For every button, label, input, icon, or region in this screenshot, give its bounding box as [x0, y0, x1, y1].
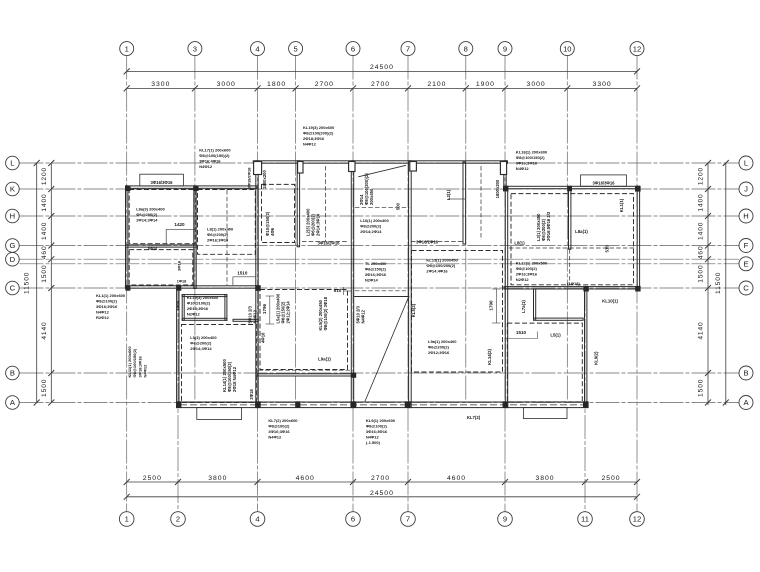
beam dashed right room F-line	[509, 247, 636, 249]
grid bubble E right	[739, 257, 753, 271]
beam dashed stair lower	[355, 290, 406, 292]
svg-text:8: 8	[464, 44, 468, 53]
svg-text:4: 4	[255, 44, 259, 53]
beam dashed room 4-6 middle	[260, 290, 348, 370]
beam dashed rooms 7-9 middle	[412, 251, 503, 373]
beam dashed room 8-9 divider	[480, 166, 482, 240]
grid axis 11 vertical (bottom)	[584, 287, 586, 512]
grid bubble C right	[739, 281, 753, 295]
svg-text:2Φ12;3Φ16: 2Φ12;3Φ16	[428, 350, 450, 355]
beam dashed big right room	[511, 194, 634, 285]
svg-text:N4Φ12: N4Φ12	[199, 164, 213, 169]
wall axis4 vertical	[256, 161, 258, 408]
column blobs at wall junctions	[126, 186, 131, 192]
svg-text:2700: 2700	[315, 81, 334, 88]
svg-text:L2(1): L2(1)	[446, 189, 451, 200]
right dim ticks	[705, 160, 711, 166]
svg-text:L9a(1) 200x400: L9a(1) 200x400	[428, 339, 457, 344]
svg-text:1400: 1400	[698, 193, 705, 211]
svg-text:1400: 1400	[698, 222, 705, 240]
grid bubble B right	[739, 366, 753, 380]
svg-text:N4Φ12: N4Φ12	[253, 309, 258, 323]
svg-text:3Φ16;3Φ16: 3Φ16;3Φ16	[366, 429, 388, 434]
grid bubble 6 top	[346, 42, 360, 56]
svg-text:KL5(2): KL5(2)	[411, 303, 416, 317]
svg-text:4: 4	[255, 515, 259, 524]
svg-text:3Φ18/2Φ18: 3Φ18/2Φ18	[246, 167, 251, 189]
svg-text:B: B	[10, 369, 15, 378]
svg-text:2Φ18 N4Φ12: 2Φ18 N4Φ12	[232, 366, 237, 392]
svg-text:3Φ18: 3Φ18	[249, 389, 254, 400]
svg-text:1510: 1510	[237, 271, 248, 276]
svg-text:Φ6@200(2): Φ6@200(2)	[311, 213, 316, 236]
svg-text:Φ8@100/150(2): Φ8@100/150(2)	[227, 361, 232, 392]
wall axis8 partition	[463, 162, 466, 244]
svg-text:3800: 3800	[208, 475, 227, 482]
wall right edge lower axis11	[585, 287, 587, 408]
svg-text:3Φ16/2Φ16: 3Φ16/2Φ16	[317, 241, 340, 246]
left segment dim line	[50, 163, 52, 403]
bottom dim ticks	[124, 479, 130, 485]
svg-text:3Φ16;3Φ16: 3Φ16;3Φ16	[96, 304, 118, 309]
beam dashed room 4-5	[262, 184, 295, 242]
svg-text:Φ6@200(2): Φ6@200(2)	[428, 345, 450, 350]
svg-text:Φ10@100(2): Φ10@100(2)	[187, 300, 211, 305]
wall left outer axis1	[126, 186, 128, 289]
svg-text:510: 510	[334, 288, 342, 293]
wall along C left	[125, 286, 258, 288]
grid bubble L right	[739, 156, 753, 170]
svg-text:Φ6@200(2): Φ6@200(2)	[136, 212, 158, 217]
grid axis C horizontal	[20, 287, 740, 289]
wall along C right	[504, 287, 640, 289]
svg-text:Φ6@200(2): Φ6@200(2)	[190, 341, 212, 346]
svg-text:N4Φ12: N4Φ12	[268, 434, 282, 439]
grid bubble 7 bottom	[401, 512, 416, 527]
svg-text:3300: 3300	[151, 81, 170, 88]
grid bubble 9 top	[498, 42, 512, 56]
wall axis10 divider upper	[569, 189, 571, 250]
svg-text:H: H	[743, 212, 748, 221]
svg-text:3Φ16;3Φ16: 3Φ16;3Φ16	[516, 161, 538, 166]
top segment dim line	[127, 87, 637, 89]
grid bubble 2 bottom	[171, 512, 186, 527]
svg-text:L: L	[10, 159, 14, 168]
svg-text:4140: 4140	[41, 321, 48, 339]
svg-text:(1Φ18): (1Φ18)	[567, 281, 580, 286]
svg-text:2500: 2500	[143, 475, 162, 482]
svg-text:L8(1): L8(1)	[514, 241, 525, 246]
svg-text:2Φ16;3Φ16: 2Φ16;3Φ16	[516, 271, 538, 276]
svg-text:Φ8@100(2): Φ8@100(2)	[366, 423, 388, 428]
svg-text:1500: 1500	[41, 264, 48, 282]
svg-text:2Φ14;2Φ14: 2Φ14;2Φ14	[360, 229, 382, 234]
svg-text:N4Φ12: N4Φ12	[303, 141, 317, 146]
svg-text:B: B	[743, 369, 748, 378]
svg-text:1400: 1400	[41, 193, 48, 211]
svg-text:24500: 24500	[370, 64, 394, 71]
svg-text:2Φ14;3Φ14: 2Φ14;3Φ14	[316, 213, 321, 236]
grid axis 8 vertical (top)	[465, 56, 467, 404]
svg-text:Φ8@100(2): Φ8@100(2)	[516, 266, 538, 271]
svg-text:F: F	[744, 241, 749, 250]
balcony top-right	[581, 175, 627, 186]
wall axis2 vertical	[177, 286, 179, 408]
svg-text:6: 6	[351, 44, 355, 53]
svg-text:2100: 2100	[427, 81, 446, 88]
svg-text:KL1(1) 200x600: KL1(1) 200x600	[96, 293, 126, 298]
grid bubble 12 top	[630, 42, 644, 56]
svg-text:4600: 4600	[447, 475, 466, 482]
grid bubble 3 top	[188, 42, 202, 56]
wall along G left	[126, 245, 197, 247]
grid bubble 12 bottom	[630, 512, 645, 527]
grid axis L horizontal	[20, 162, 740, 164]
svg-text:Φ10@150(2): Φ10@150(2)	[265, 211, 270, 236]
svg-text:1800x200: 1800x200	[495, 179, 500, 198]
svg-text:K: K	[10, 185, 15, 194]
stair landing line	[354, 296, 409, 298]
beam dashed axis10 divider lower	[569, 249, 571, 284]
beam dashed lower right room	[507, 323, 582, 402]
svg-text:Φ8@100(2): Φ8@100(2)	[268, 423, 290, 428]
svg-text:C: C	[743, 284, 749, 293]
svg-text:2Φ14;3Φ14: 2Φ14;3Φ14	[190, 346, 212, 351]
beam dashed room 1-3 upper	[129, 190, 195, 244]
grid axis 3 vertical (top)	[194, 56, 196, 404]
grid bubble B left	[6, 366, 20, 380]
grid bubble 9 bottom	[498, 512, 513, 527]
svg-text:24500: 24500	[370, 490, 394, 497]
svg-text:Φ8@100/200(2): Φ8@100/200(2)	[426, 263, 455, 268]
grid bubble 4 bottom	[250, 512, 265, 527]
grid axis B horizontal	[20, 372, 740, 374]
svg-text:1500: 1500	[698, 379, 705, 397]
svg-text:Φ8@100(200)(2): Φ8@100(200)(2)	[364, 173, 369, 205]
outlined column boxes on L wall	[254, 162, 262, 175]
svg-text:1500: 1500	[698, 264, 705, 282]
svg-text:5: 5	[293, 44, 297, 53]
svg-text:6: 6	[351, 515, 355, 524]
svg-text:1Φ18: 1Φ18	[175, 300, 180, 311]
svg-text:3Φ16/2Φ16: 3Φ16/2Φ16	[416, 240, 439, 245]
wall along B middle	[257, 374, 354, 376]
grid bubble 10 top	[560, 42, 574, 56]
svg-text:1: 1	[125, 44, 129, 53]
svg-text:Φ8@200(2): Φ8@200(2)	[360, 224, 382, 229]
svg-text:3Φ18: 3Φ18	[177, 260, 182, 271]
wall axis5 vertical	[297, 161, 299, 247]
svg-text:KL5(2) 200x450: KL5(2) 200x450	[318, 299, 323, 330]
svg-text:3: 3	[193, 44, 197, 53]
svg-text:L8a(3) 200x400: L8a(3) 200x400	[136, 207, 165, 212]
svg-text:(-1.500): (-1.500)	[366, 440, 381, 445]
svg-text:KL14(1) 200x500: KL14(1) 200x500	[222, 359, 227, 392]
grid bubble H left	[6, 209, 20, 223]
svg-text:KL7(2): KL7(2)	[467, 415, 481, 420]
svg-text:KL14(2): KL14(2)	[487, 349, 492, 365]
svg-text:5Φ10 2/3: 5Φ10 2/3	[248, 305, 253, 323]
svg-text:1200: 1200	[698, 167, 705, 185]
svg-text:1796: 1796	[262, 303, 267, 314]
left overall dim line	[36, 163, 38, 403]
grid bubble L left	[6, 156, 20, 170]
svg-text:3000: 3000	[217, 81, 236, 88]
wall axis6 vertical	[351, 161, 353, 408]
svg-text:KL12(1) 200x500: KL12(1) 200x500	[516, 260, 548, 265]
svg-text:1790: 1790	[489, 300, 494, 311]
wall interior y320 left	[233, 319, 258, 321]
svg-text:Φ8@100(2) 3Φ18: Φ8@100(2) 3Φ18	[323, 296, 328, 330]
svg-text:N4Φ12: N4Φ12	[143, 364, 148, 378]
grid axis 6 vertical	[352, 56, 354, 512]
svg-text:N4Φ12: N4Φ12	[366, 434, 380, 439]
balcony top-left	[140, 174, 184, 186]
wall top-left along K	[126, 186, 258, 188]
grid axis 2 vertical (bottom)	[177, 287, 179, 512]
svg-text:1900: 1900	[476, 81, 495, 88]
svg-text:KL9(2): KL9(2)	[594, 351, 599, 365]
beam dashed along A	[180, 404, 585, 406]
balcony bottom-left	[197, 408, 242, 420]
svg-text:L3(1) 200x450: L3(1) 200x450	[536, 213, 541, 241]
svg-text:D: D	[10, 255, 16, 264]
balcony bottom-right	[524, 408, 568, 419]
svg-text:2Φ18;3Φ16: 2Φ18;3Φ16	[303, 136, 325, 141]
svg-text:510: 510	[604, 245, 609, 253]
svg-text:1: 1	[125, 515, 129, 524]
grid bubble 6 bottom	[346, 512, 361, 527]
svg-text:2Φ12;2Φ14: 2Φ12;2Φ14	[286, 301, 291, 324]
svg-text:1500: 1500	[41, 379, 48, 397]
grid bubble H right	[739, 209, 753, 223]
bottom segment dim line	[127, 481, 637, 483]
svg-text:L5a(1) 200x400: L5a(1) 200x400	[276, 293, 281, 323]
svg-text:12: 12	[633, 515, 641, 524]
svg-text:1510: 1510	[516, 330, 527, 335]
svg-text:KL11(1) 200x600: KL11(1) 200x600	[127, 346, 132, 378]
svg-text:3Φ16/3Φ16: 3Φ16/3Φ16	[150, 180, 173, 185]
stair flight diagonal lower	[365, 298, 408, 401]
svg-text:L5(3) 200x400: L5(3) 200x400	[190, 335, 217, 340]
bottom overall dim line	[127, 496, 637, 498]
beam dashed room 5-6 bottom	[302, 241, 348, 243]
svg-text:E: E	[743, 260, 748, 269]
svg-text:N4Φ12: N4Φ12	[361, 309, 366, 323]
grid bubble 11 bottom	[578, 512, 593, 527]
grid axis A horizontal	[20, 402, 740, 404]
svg-text:2Φ16;3Φ16: 2Φ16;3Φ16	[207, 238, 229, 243]
svg-text:11500: 11500	[24, 272, 31, 294]
grid axis 7 vertical	[407, 56, 409, 512]
svg-text:11: 11	[581, 515, 589, 524]
svg-text:2Φ18;3Φ16: 2Φ18;3Φ16	[187, 306, 209, 311]
wall top-middle along L	[253, 161, 507, 163]
svg-text:Φ8@150(2): Φ8@150(2)	[365, 267, 387, 272]
svg-text:L16(1) 200x400: L16(1) 200x400	[360, 218, 389, 223]
svg-text:2Φ14: 2Φ14	[359, 194, 364, 205]
grid bubble 4 top	[251, 42, 265, 56]
svg-text:KL7(2) 200x600: KL7(2) 200x600	[268, 418, 298, 423]
svg-text:L5(1): L5(1)	[550, 333, 561, 338]
wall room box right interior	[534, 289, 536, 320]
grid axis E horizontal	[20, 263, 740, 265]
beam dashed room 3-4	[198, 190, 256, 255]
svg-text:KL19(3) 200x600: KL19(3) 200x600	[303, 125, 335, 130]
svg-text:KL15(1) 200x450: KL15(1) 200x450	[426, 258, 458, 263]
left dim ticks	[48, 160, 54, 166]
svg-text:1200: 1200	[41, 167, 48, 185]
grid bubble F right	[739, 239, 753, 253]
svg-text:3Φ16;3Φ16: 3Φ16;3Φ16	[365, 272, 387, 277]
svg-text:2Φ14;3Φ14: 2Φ14;3Φ14	[136, 218, 158, 223]
grid bubble 7 top	[401, 42, 415, 56]
grid bubble G left	[6, 239, 20, 253]
svg-text:3800: 3800	[535, 475, 554, 482]
top overall dim line	[127, 70, 637, 72]
svg-text:KL9(1) 200x600: KL9(1) 200x600	[366, 418, 396, 423]
grid bubble D left	[6, 252, 20, 266]
svg-text:500: 500	[396, 202, 401, 210]
svg-text:L8a(1): L8a(1)	[575, 229, 588, 234]
svg-text:Φ6@150(2): Φ6@150(2)	[281, 301, 286, 324]
beam dashed stair upper	[355, 206, 410, 208]
top dim ticks	[124, 85, 130, 91]
grid axis K horizontal	[20, 188, 740, 190]
grid axis 10 vertical (top)	[566, 56, 568, 404]
svg-text:10: 10	[563, 44, 571, 53]
svg-text:200x450: 200x450	[369, 188, 374, 205]
svg-text:2: 2	[176, 515, 180, 524]
grid axis H horizontal	[20, 215, 740, 217]
svg-text:KL19(3) 200x600: KL19(3) 200x600	[187, 295, 219, 300]
grid bubble 8 top	[459, 42, 473, 56]
wall axis9 vertical	[505, 186, 507, 407]
svg-text:4140: 4140	[698, 321, 705, 339]
stair flight diagonal upper	[358, 165, 406, 177]
beam dashed room 2-4 lower	[182, 325, 257, 403]
svg-text:Φ8@100(2): Φ8@100(2)	[96, 299, 118, 304]
svg-text:12: 12	[633, 44, 641, 53]
svg-text:1400: 1400	[41, 222, 48, 240]
svg-text:1420: 1420	[174, 222, 185, 227]
wall top-right along J	[505, 186, 639, 188]
svg-text:N4Φ12: N4Φ12	[96, 310, 110, 315]
grid axis G horizontal	[20, 245, 740, 247]
grid axis 4 vertical	[257, 56, 259, 512]
svg-text:J: J	[744, 185, 748, 194]
svg-text:11500: 11500	[715, 272, 722, 294]
svg-text:KL18(1) 200x600: KL18(1) 200x600	[516, 150, 548, 155]
svg-text:3000: 3000	[527, 81, 546, 88]
wall room box left interior	[182, 295, 227, 297]
svg-text:9: 9	[503, 44, 507, 53]
wall axis12 vertical	[637, 186, 639, 289]
beam dashed room 5-6 divider	[325, 166, 327, 241]
svg-text:460: 460	[698, 245, 705, 259]
svg-text:TL 250x400: TL 250x400	[365, 261, 387, 266]
right overall dim line	[725, 163, 727, 405]
svg-text:Φ6@200(2): Φ6@200(2)	[207, 232, 229, 237]
svg-text:2700: 2700	[371, 81, 390, 88]
wall axis9 corner upper	[504, 161, 506, 189]
grid axis D horizontal	[20, 258, 740, 260]
svg-text:7: 7	[406, 515, 410, 524]
svg-text:1Φ18: 1Φ18	[177, 279, 186, 283]
grid bubble A right	[739, 396, 753, 410]
svg-text:N2Φ12: N2Φ12	[187, 311, 201, 316]
beam dashed secondary x227	[226, 190, 228, 285]
grid bubble J right	[739, 182, 753, 196]
wall along A bottom	[177, 402, 588, 408]
svg-text:3Φ16/3Φ16: 3Φ16/3Φ16	[592, 180, 615, 185]
grid axis 9 vertical	[504, 56, 506, 512]
wall axis7 vertical	[409, 161, 412, 408]
svg-text:4Φ16: 4Φ16	[261, 332, 266, 343]
svg-text:2Φ14;4Φ16: 2Φ14;4Φ16	[426, 269, 448, 274]
grid bubble 1 bottom	[119, 512, 134, 527]
svg-text:N2Φ12: N2Φ12	[516, 277, 530, 282]
svg-text:2Φ16;5Φ16 2/3: 2Φ16;5Φ16 2/3	[546, 211, 551, 241]
svg-text:7: 7	[406, 44, 410, 53]
grid bubble C left	[6, 281, 20, 295]
svg-text:G: G	[9, 241, 15, 250]
svg-text:Φ8@100/150(2): Φ8@100/150(2)	[516, 155, 545, 160]
svg-text:4Φ6: 4Φ6	[270, 227, 275, 236]
svg-text:Φ8@100/150(2): Φ8@100/150(2)	[132, 348, 137, 377]
svg-text:460: 460	[41, 245, 48, 259]
svg-text:3Φ16;3Φ16: 3Φ16;3Φ16	[268, 429, 290, 434]
beam dashed B line left	[259, 369, 355, 371]
grid bubble 1 top	[120, 42, 134, 56]
beam dashed room 1-3 lower	[129, 250, 193, 285]
svg-text:5Φ16: 5Φ16	[148, 247, 157, 251]
beam dashed room 7-8 bottom	[411, 241, 464, 243]
grid axis 1 vertical	[126, 56, 128, 512]
label leader L2(1)	[448, 198, 465, 200]
svg-text:KL10(1): KL10(1)	[602, 299, 618, 304]
svg-text:L: L	[744, 159, 748, 168]
right segment dim line	[707, 163, 709, 405]
grid bubble K left	[6, 182, 20, 196]
svg-text:2500: 2500	[601, 475, 620, 482]
svg-text:3Φ16;4Φ16: 3Φ16;4Φ16	[199, 159, 221, 164]
svg-text:1800: 1800	[267, 81, 286, 88]
svg-text:3Φ18;3Φ16: 3Φ18;3Φ16	[137, 355, 142, 377]
svg-text:2700: 2700	[371, 475, 390, 482]
svg-text:N4Φ12: N4Φ12	[516, 166, 530, 171]
svg-text:1800x200: 1800x200	[262, 170, 267, 189]
svg-text:5Φ10 2/3: 5Φ10 2/3	[356, 305, 361, 323]
svg-text:Φ8@100(200)(2): Φ8@100(200)(2)	[303, 130, 334, 135]
wall axis3 vertical	[194, 186, 196, 289]
svg-text:L7a(1): L7a(1)	[521, 300, 526, 313]
svg-text:L8(1) 200x400: L8(1) 200x400	[207, 227, 234, 232]
svg-text:L2(3) 200x400: L2(3) 200x400	[306, 208, 311, 236]
svg-text:R2Φ12: R2Φ12	[96, 315, 110, 320]
svg-text:4600: 4600	[296, 475, 315, 482]
svg-text:N2Φ14: N2Φ14	[365, 278, 379, 283]
svg-text:9: 9	[503, 515, 507, 524]
grid axis 12 vertical	[636, 56, 638, 512]
grid bubble A left	[6, 396, 20, 410]
grid bubble 5 top	[289, 42, 303, 56]
svg-text:L9a(1): L9a(1)	[318, 357, 331, 362]
svg-text:KL1(1): KL1(1)	[619, 198, 624, 212]
svg-text:Φ8@100(150)(2): Φ8@100(150)(2)	[199, 153, 230, 158]
svg-text:H: H	[10, 212, 15, 221]
grid axis 5 vertical (top)	[295, 56, 297, 404]
